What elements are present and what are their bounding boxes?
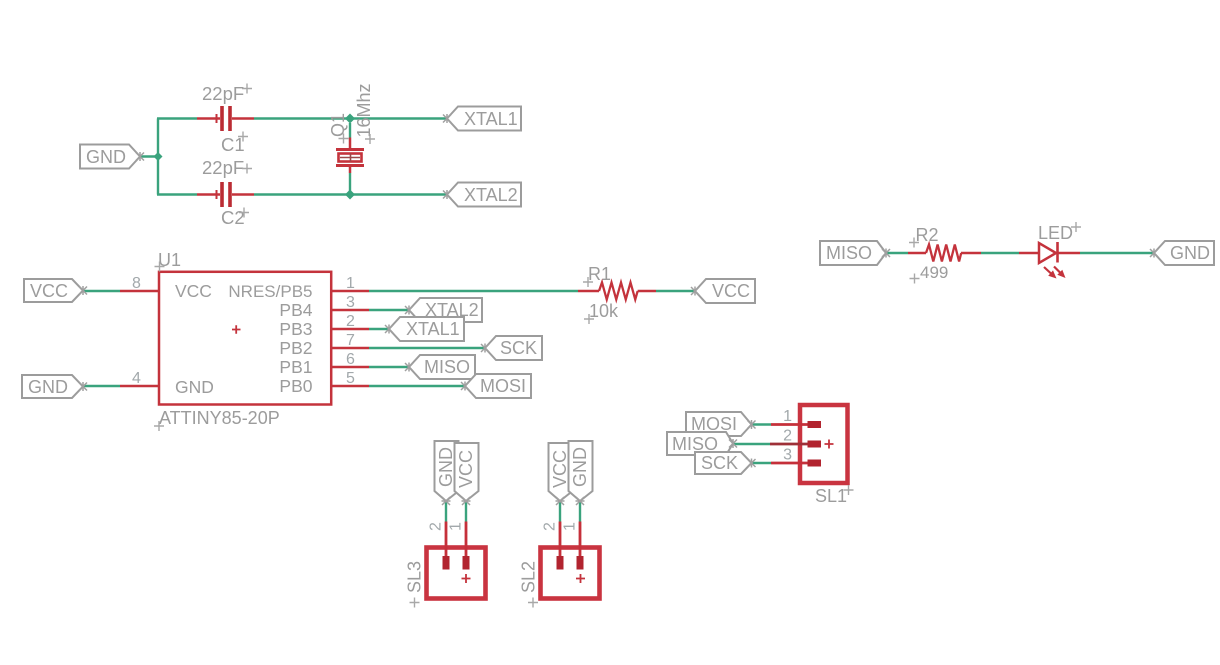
svg-text:2: 2 xyxy=(346,313,355,330)
svg-text:GND: GND xyxy=(570,447,590,487)
origin cross Q1 name xyxy=(339,134,349,144)
junction at crystal bottom xyxy=(345,190,355,200)
wire GND stub xyxy=(140,155,158,157)
svg-text:22pF: 22pF xyxy=(202,157,244,178)
ground flag GND (left) xyxy=(80,145,144,169)
wire XTAL2 bottom mid xyxy=(254,193,350,195)
wire pin6 to MISO xyxy=(369,366,409,368)
wire GND to pin 4 xyxy=(83,385,120,387)
svg-text:PB1: PB1 xyxy=(279,357,312,377)
wire MISO to SL1 pin2 xyxy=(733,443,770,445)
svg-text:SCK: SCK xyxy=(701,453,738,473)
pin 7 PB2 xyxy=(332,347,369,350)
wire VCC to SL3 pin1 xyxy=(465,501,467,522)
net flag SCK (at U1) xyxy=(481,336,542,360)
resistor R2 xyxy=(908,245,981,262)
pin 2 PB3 xyxy=(332,328,369,331)
origin cross R1 name xyxy=(583,277,593,287)
svg-text:8: 8 xyxy=(132,275,141,292)
svg-text:3: 3 xyxy=(783,447,792,464)
svg-text:VCC: VCC xyxy=(456,450,476,488)
connector SL3 body xyxy=(427,548,486,599)
junction at GND tee xyxy=(154,152,163,161)
LED emission arrows xyxy=(1044,267,1066,279)
net flag XTAL1 (top) xyxy=(443,107,521,131)
wire SCK to SL1 pin3 xyxy=(752,462,772,464)
svg-text:5: 5 xyxy=(346,370,355,387)
svg-text:PB3: PB3 xyxy=(279,319,312,339)
wire R2 to LED xyxy=(981,252,1019,254)
svg-text:1: 1 xyxy=(346,275,355,292)
origin cross R2 value xyxy=(910,274,920,284)
pin 6 PB1 xyxy=(332,366,369,369)
power flag VCC (SL3, vertical) xyxy=(455,443,479,505)
svg-text:22pF: 22pF xyxy=(202,83,244,104)
svg-text:ATTINY85-20P: ATTINY85-20P xyxy=(159,408,280,428)
svg-text:7: 7 xyxy=(346,332,355,349)
svg-text:499: 499 xyxy=(920,263,948,282)
ground flag GND (LED row) xyxy=(1150,241,1214,265)
wire MISO to R2 xyxy=(886,252,908,254)
SL2 pin 1 xyxy=(579,522,582,558)
SL1 origin cross xyxy=(825,440,834,449)
svg-text:1: 1 xyxy=(448,522,465,531)
svg-text:XTAL2: XTAL2 xyxy=(464,185,518,205)
wire GND to SL3 pin2 xyxy=(445,501,447,522)
svg-text:MOSI: MOSI xyxy=(480,376,526,396)
origin cross LED name xyxy=(1071,222,1081,232)
connector SL1 body xyxy=(800,405,848,483)
wire XTAL2 bottom left xyxy=(157,193,197,195)
origin cross C1 name xyxy=(238,132,248,142)
origin cross SL1 name xyxy=(844,485,854,495)
origin cross C1 value xyxy=(242,84,252,94)
pin 5 PB0 xyxy=(332,385,369,388)
wire MOSI to SL1 pin1 xyxy=(752,423,772,425)
svg-text:16Mhz: 16Mhz xyxy=(354,83,374,137)
net flag XTAL2 (at U1) xyxy=(405,298,482,322)
svg-text:SL2: SL2 xyxy=(519,561,539,593)
wire pin5 to MOSI xyxy=(369,385,465,387)
svg-text:10k: 10k xyxy=(589,301,619,321)
svg-text:GND: GND xyxy=(175,377,214,397)
svg-text:GND: GND xyxy=(28,377,68,397)
ground flag GND (SL3, vertical) xyxy=(435,441,459,505)
power flag VCC (SL2, vertical) xyxy=(549,443,573,505)
origin cross U1 name xyxy=(155,262,165,272)
svg-text:GND: GND xyxy=(1170,243,1210,263)
wire R1 to VCC flag xyxy=(656,290,695,292)
SL1 pin 2 xyxy=(770,443,808,446)
svg-text:XTAL1: XTAL1 xyxy=(406,319,460,339)
wire pin7 to SCK xyxy=(369,347,485,349)
svg-text:VCC: VCC xyxy=(30,281,68,301)
crystal Q1 xyxy=(336,123,364,191)
svg-text:MISO: MISO xyxy=(826,243,872,263)
SL1 pin 1 xyxy=(771,423,808,426)
origin cross R2 name xyxy=(909,238,919,248)
net flag SCK (SL1) xyxy=(695,452,756,474)
SL2 pin 2 xyxy=(559,522,562,558)
net flag MOSI (at U1) xyxy=(461,374,531,398)
svg-text:SL1: SL1 xyxy=(815,486,847,506)
SL3 pin 1 xyxy=(465,522,468,558)
wire vertical GND bus xyxy=(157,119,159,195)
svg-text:GND: GND xyxy=(86,147,126,167)
wire XTAL1 top left xyxy=(157,117,197,119)
op-amp U1 body xyxy=(159,272,331,405)
SL3 origin cross xyxy=(462,574,471,583)
svg-text:3: 3 xyxy=(346,294,355,311)
origin cross C2 name xyxy=(239,208,249,218)
net flag XTAL1 (at U1) xyxy=(385,317,464,341)
svg-text:4: 4 xyxy=(132,370,141,387)
svg-text:SCK: SCK xyxy=(500,338,537,358)
net flag MISO (SL1) xyxy=(667,432,737,455)
pin 3 PB4 xyxy=(332,309,369,312)
resistor R1 xyxy=(578,283,656,300)
connector SL2 body xyxy=(541,548,600,599)
pin 1 NRES/PB5 xyxy=(332,290,369,293)
svg-text:Q1: Q1 xyxy=(328,113,348,137)
wire pin2 to XTAL1 xyxy=(369,328,389,330)
svg-text:NRES/PB5: NRES/PB5 xyxy=(228,282,312,301)
svg-text:LED: LED xyxy=(1038,223,1073,243)
origin cross C2 value xyxy=(242,164,252,174)
svg-text:C2: C2 xyxy=(221,207,245,228)
wire XTAL1 top mid xyxy=(254,117,350,119)
svg-text:2: 2 xyxy=(542,522,559,531)
svg-text:R1: R1 xyxy=(588,264,611,284)
origin cross SL2 name xyxy=(528,598,538,608)
origin cross U1 value xyxy=(154,421,164,431)
svg-text:VCC: VCC xyxy=(550,450,570,488)
power flag VCC (right of R1) xyxy=(691,279,755,303)
LED diode xyxy=(1019,242,1080,263)
wire pin3 to XTAL2 xyxy=(369,309,409,311)
SL2 origin cross xyxy=(576,574,585,583)
pin 8 VCC xyxy=(120,290,158,293)
svg-text:GND: GND xyxy=(436,447,456,487)
wire VCC to pin 8 xyxy=(83,290,120,292)
origin cross R1 value xyxy=(584,314,594,324)
svg-text:SL3: SL3 xyxy=(405,561,425,593)
ground flag GND (left of U1) xyxy=(22,375,87,398)
wire GND to SL2 pin1 xyxy=(579,501,581,522)
wire pin1 to R1 xyxy=(369,290,578,292)
wire XTAL1 top right xyxy=(350,117,447,119)
origin cross SL3 name xyxy=(410,598,420,608)
junction at crystal top xyxy=(345,114,355,124)
wire VCC to SL2 pin2 xyxy=(559,501,561,522)
svg-text:PB0: PB0 xyxy=(279,376,312,396)
wire LED to GND xyxy=(1080,252,1154,254)
svg-text:2: 2 xyxy=(783,428,792,445)
svg-text:6: 6 xyxy=(346,351,355,368)
power flag VCC (left of U1) xyxy=(24,279,87,302)
capacitor C1 xyxy=(197,106,254,131)
ground flag GND (SL2, vertical) xyxy=(569,441,593,505)
capacitor C2 xyxy=(197,182,254,207)
SL1 pin 3 xyxy=(771,462,808,465)
net flag MISO (LED row) xyxy=(820,241,890,265)
svg-text:MISO: MISO xyxy=(424,357,470,377)
svg-text:1: 1 xyxy=(562,522,579,531)
svg-text:PB4: PB4 xyxy=(279,300,312,320)
svg-text:PB2: PB2 xyxy=(279,338,312,358)
svg-text:2: 2 xyxy=(428,522,445,531)
origin cross 16Mhz value xyxy=(365,134,375,144)
SL3 pin 2 xyxy=(445,522,448,558)
svg-text:1: 1 xyxy=(783,408,792,425)
net flag MISO (at U1) xyxy=(405,355,475,379)
pin 4 GND xyxy=(120,385,158,388)
net flag MOSI (SL1) xyxy=(686,412,756,436)
svg-text:XTAL1: XTAL1 xyxy=(464,109,518,129)
net flag XTAL2 (top) xyxy=(443,183,521,207)
svg-text:VCC: VCC xyxy=(175,281,212,301)
wire XTAL2 bottom right xyxy=(350,193,447,195)
U1 origin cross (center) xyxy=(232,325,241,334)
svg-text:VCC: VCC xyxy=(712,281,750,301)
